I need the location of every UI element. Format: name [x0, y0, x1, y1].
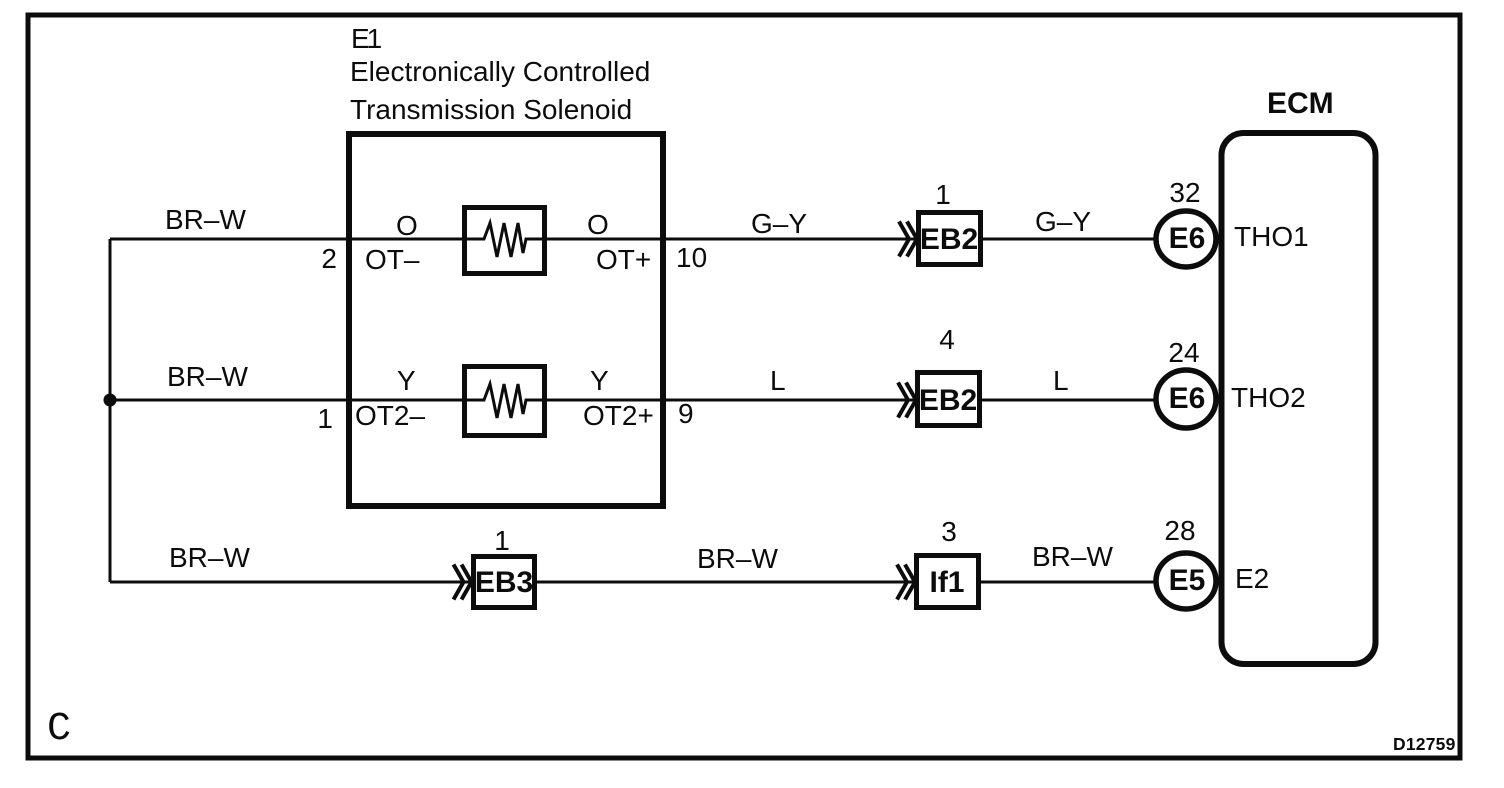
svg-text:THO2: THO2 [1231, 382, 1306, 413]
svg-text:1: 1 [317, 403, 333, 434]
label wire G-Y (EB2 to E6) [1035, 206, 1091, 237]
ECM label [1267, 87, 1334, 120]
page index C [47, 707, 71, 752]
resistor coil OT2 (row2) [462, 367, 547, 436]
svg-text:O: O [396, 210, 418, 241]
wire BR-W row1 (pin2 to E6) [110, 238, 1155, 241]
terminal letter O (left) [396, 210, 418, 241]
svg-text:E1: E1 [351, 23, 382, 54]
connector If1 [917, 556, 979, 608]
connector arrow (If1) [897, 565, 915, 600]
solenoid E1 name [350, 23, 650, 125]
svg-text:C: C [47, 707, 71, 752]
pin 10 [676, 242, 707, 273]
svg-text:24: 24 [1168, 337, 1199, 368]
svg-text:EB2: EB2 [919, 384, 977, 417]
connector If1 pin 3 [941, 516, 957, 547]
terminal letter Y (right) [590, 365, 609, 396]
svg-text:E6: E6 [1169, 222, 1206, 255]
svg-text:OT+: OT+ [596, 244, 651, 275]
solenoid E1 box [349, 134, 663, 506]
terminal name OT2+ [583, 400, 654, 431]
terminal E5 pin 28 [1164, 515, 1195, 546]
connector EB2 (row1) pin 1 [935, 179, 951, 210]
label wire BR-W row2 [167, 361, 248, 392]
wire vertical BR-W bus [109, 239, 112, 582]
connector arrow (EB3) [454, 565, 472, 600]
svg-text:E5: E5 [1169, 564, 1206, 597]
svg-text:2: 2 [321, 243, 337, 274]
svg-text:4: 4 [939, 324, 955, 355]
svg-text:G–Y: G–Y [1035, 206, 1091, 237]
node THO2 [1231, 382, 1306, 413]
label wire BR-W row1 [165, 204, 246, 235]
svg-text:BR–W: BR–W [167, 361, 248, 392]
svg-text:OT–: OT– [365, 244, 420, 275]
svg-text:BR–W: BR–W [165, 204, 246, 235]
svg-text:E2: E2 [1235, 563, 1269, 594]
terminal letter Y (left) [397, 365, 416, 396]
svg-text:If1: If1 [929, 566, 964, 599]
label wire BR-W (If1 to E5) [1032, 541, 1113, 572]
label wire L (EB2 to E6) [1053, 365, 1069, 396]
label wire L (solenoid to EB2) [770, 365, 786, 396]
svg-text:BR–W: BR–W [1032, 541, 1113, 572]
svg-text:ECM: ECM [1267, 87, 1334, 120]
ECM box [1222, 133, 1376, 664]
connector EB2 (row1) [919, 213, 981, 265]
label wire BR-W (EB3 to If1) [697, 543, 778, 574]
terminal E6 (THO1) [1156, 211, 1216, 267]
svg-text:EB3: EB3 [475, 566, 533, 599]
svg-text:Transmission Solenoid: Transmission Solenoid [350, 94, 632, 125]
svg-text:3: 3 [941, 516, 957, 547]
figure number D12759 [1393, 734, 1456, 754]
svg-text:BR–W: BR–W [697, 543, 778, 574]
node THO1 [1234, 221, 1309, 252]
svg-text:OT2–: OT2– [355, 400, 425, 431]
terminal E6 pin 24 [1168, 337, 1199, 368]
svg-text:10: 10 [676, 242, 707, 273]
svg-text:O: O [587, 209, 609, 240]
terminal name OT2- [355, 400, 425, 431]
svg-text:D12759: D12759 [1393, 734, 1456, 754]
svg-text:Y: Y [397, 365, 416, 396]
wire BR-W row2 (pin1 to E6) [110, 399, 1155, 402]
resistor coil OT (row1) [462, 208, 547, 274]
svg-text:EB2: EB2 [920, 223, 978, 256]
label wire G-Y (solenoid to EB2) [751, 208, 807, 239]
pin 9 [678, 398, 694, 429]
terminal E6 pin 32 [1169, 177, 1200, 208]
connector EB3 [474, 557, 535, 608]
svg-text:32: 32 [1169, 177, 1200, 208]
svg-text:9: 9 [678, 398, 694, 429]
svg-text:OT2+: OT2+ [583, 400, 654, 431]
svg-text:1: 1 [494, 525, 510, 556]
connector EB2 (row2) pin 4 [939, 324, 955, 355]
terminal name OT+ [596, 244, 651, 275]
terminal E6 (THO2) [1156, 370, 1216, 428]
svg-text:G–Y: G–Y [751, 208, 807, 239]
svg-text:E6: E6 [1169, 382, 1206, 415]
connector EB2 (row2) [918, 373, 980, 426]
svg-text:THO1: THO1 [1234, 221, 1309, 252]
connector arrow (EB2 row2) [898, 383, 916, 418]
svg-text:BR–W: BR–W [169, 542, 250, 573]
connector arrow (EB2 row1) [899, 222, 917, 257]
terminal name OT- [365, 244, 420, 275]
label wire BR-W row3 [169, 542, 250, 573]
pin 2 [321, 243, 337, 274]
svg-text:Y: Y [590, 365, 609, 396]
connector EB3 pin 1 [494, 525, 510, 556]
wire BR-W row3 (ground branch to E5) [110, 581, 1155, 584]
svg-text:L: L [770, 365, 786, 396]
pin 1 (OT2-) [317, 403, 333, 434]
svg-text:28: 28 [1164, 515, 1195, 546]
terminal E5 (E2) [1156, 553, 1216, 609]
svg-text:1: 1 [935, 179, 951, 210]
svg-text:L: L [1053, 365, 1069, 396]
svg-text:Electronically Controlled: Electronically Controlled [350, 56, 650, 87]
node E2 [1235, 563, 1269, 594]
terminal letter O (right) [587, 209, 609, 240]
junction node [104, 394, 117, 407]
